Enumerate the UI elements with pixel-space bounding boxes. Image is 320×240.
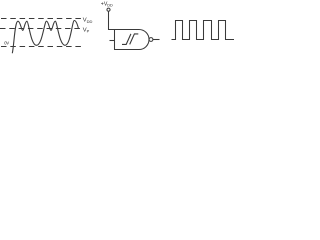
svg-text:VDD: VDD xyxy=(83,18,93,24)
node VP threshold level (dashed) xyxy=(0,28,81,30)
schmitt trigger gate U1 xyxy=(115,30,150,50)
output square waveform xyxy=(172,21,235,40)
wire input stub xyxy=(110,40,115,42)
svg-text:0V: 0V xyxy=(4,41,9,46)
svg-text:+VDD: +VDD xyxy=(101,1,113,7)
inversion bubble xyxy=(149,38,153,42)
+VDD supply terminal xyxy=(107,8,110,11)
noisy input waveform xyxy=(12,21,78,54)
node VDD level (dashed) xyxy=(1,18,81,20)
svg-text:VP: VP xyxy=(83,27,90,33)
node 0V level (dashed) xyxy=(1,46,83,48)
wire VDD supply xyxy=(109,11,115,30)
wire output xyxy=(153,39,160,41)
hysteresis symbol xyxy=(122,34,138,45)
